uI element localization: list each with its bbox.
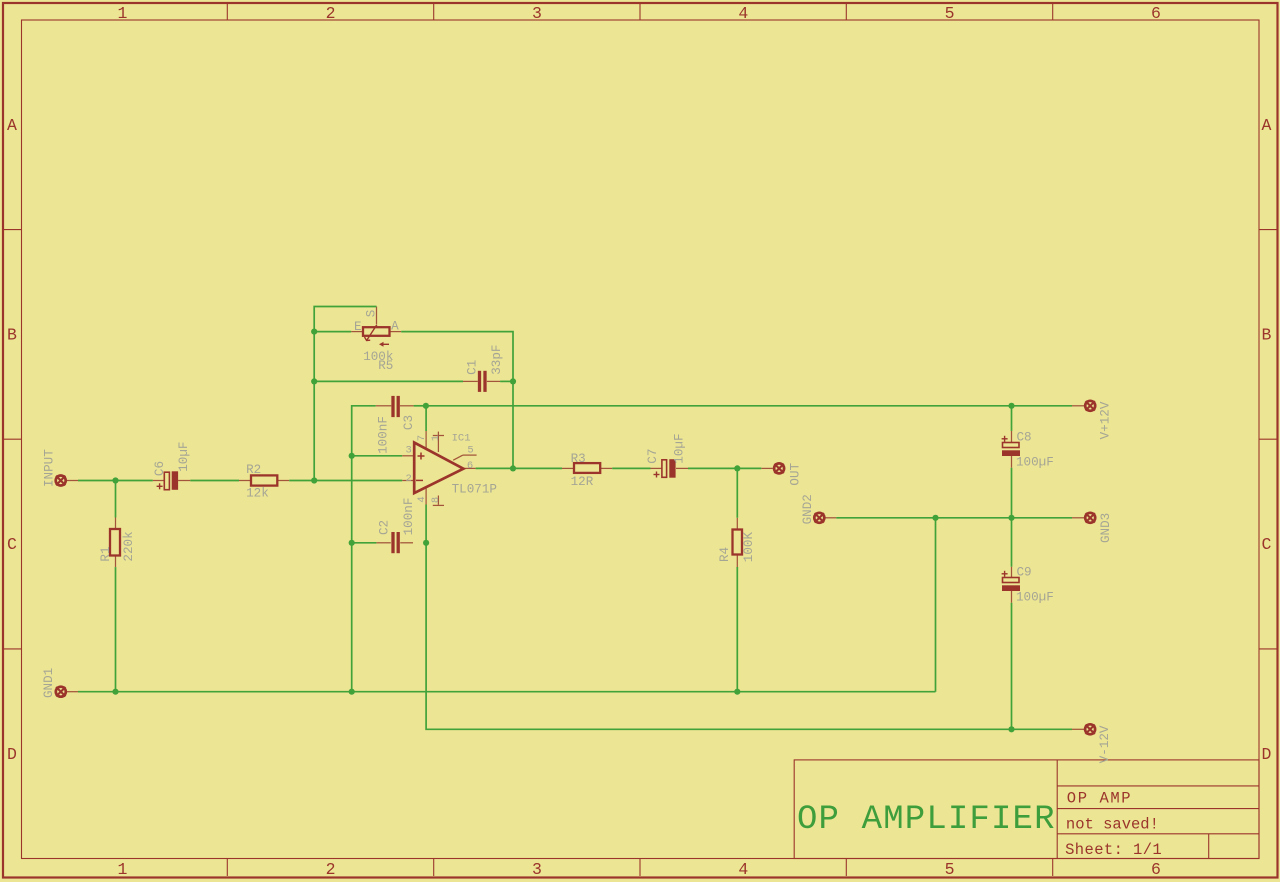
- node R4 bottom junction: [734, 689, 740, 695]
- column divider bottom 2|3: [433, 859, 435, 877]
- pin R2 left: [239, 480, 251, 482]
- node C2 left junction: [349, 540, 355, 546]
- connector GND1: [56, 687, 66, 697]
- svg-text:C7: C7: [646, 449, 660, 464]
- capacitor C6 polarized: [157, 471, 178, 490]
- capacitor C9 polarized: [1002, 571, 1020, 591]
- node V+ rail junction: [1008, 403, 1014, 409]
- pin R1 bottom: [115, 556, 117, 568]
- svg-text:C8: C8: [1017, 431, 1032, 445]
- row divider left C|D: [4, 648, 22, 650]
- node V- rail junction: [1008, 726, 1014, 732]
- svg-text:GND3: GND3: [1099, 513, 1113, 543]
- svg-text:6: 6: [1151, 860, 1161, 879]
- wire C8 bottom to GND row: [1011, 468, 1013, 518]
- svg-text:not saved!: not saved!: [1066, 816, 1159, 834]
- svg-text:D: D: [1262, 745, 1272, 764]
- svg-text:C1: C1: [466, 360, 480, 375]
- title block row line 1: [1057, 785, 1259, 787]
- wire R1 top: [115, 481, 117, 518]
- svg-text:TL071P: TL071P: [452, 482, 497, 496]
- svg-text:R3: R3: [571, 452, 586, 466]
- svg-text:C6: C6: [153, 461, 167, 476]
- svg-text:6: 6: [467, 460, 473, 472]
- pin IC1 1 bar: [433, 435, 444, 437]
- wire GND rail riser to GND2 row: [935, 518, 937, 692]
- svg-text:3: 3: [406, 445, 412, 457]
- svg-text:3: 3: [532, 860, 542, 879]
- node input R1 tap: [112, 477, 118, 483]
- pin C7 left: [651, 467, 662, 469]
- connector V-12V: [1085, 724, 1095, 734]
- potentiometer R5: [363, 325, 390, 347]
- svg-text:C2: C2: [378, 520, 392, 535]
- node R4 top junction: [734, 465, 740, 471]
- title block sheet cell divider: [1208, 834, 1210, 859]
- wire R4 top: [736, 468, 738, 517]
- wire C3 right to V+ junction: [414, 405, 426, 407]
- column divider bottom 1|2: [226, 859, 228, 877]
- column divider bottom 4|5: [845, 859, 847, 877]
- svg-text:V+12V: V+12V: [1099, 401, 1113, 439]
- wire R1 bottom to GND rail: [115, 567, 117, 692]
- svg-text:5: 5: [945, 4, 955, 23]
- title block outline: [794, 760, 1259, 859]
- svg-text:100µF: 100µF: [1016, 456, 1054, 470]
- svg-text:5: 5: [467, 445, 473, 457]
- pin C3 left: [376, 405, 392, 407]
- svg-text:33pF: 33pF: [490, 345, 504, 375]
- svg-text:4: 4: [738, 860, 748, 879]
- svg-text:A: A: [7, 116, 17, 135]
- node output junction: [510, 465, 516, 471]
- resistor R3: [574, 463, 600, 473]
- svg-text:6: 6: [1151, 4, 1161, 23]
- node R1 bottom junction: [112, 689, 118, 695]
- wire C6 to R2: [190, 480, 239, 482]
- wire C7 to OUT: [688, 467, 761, 469]
- wire C8 top link: [1011, 406, 1013, 431]
- pin IC1 4 V-: [425, 488, 427, 505]
- capacitor C1: [480, 371, 486, 392]
- svg-text:C3: C3: [402, 415, 416, 430]
- node C1 right junction: [510, 378, 516, 384]
- pin IC1 7 V+: [425, 431, 427, 449]
- svg-text:E: E: [354, 320, 362, 334]
- pin IC1 5 balance diagonal: [453, 455, 463, 460]
- svg-text:10µF: 10µF: [177, 442, 191, 472]
- resistor R1: [110, 529, 120, 556]
- pin IC1 6 output: [463, 467, 475, 469]
- svg-text:GND2: GND2: [801, 494, 815, 524]
- pin C7 right: [676, 467, 688, 469]
- svg-text:C: C: [1262, 535, 1272, 554]
- pin IC1 8 balance: [437, 496, 439, 505]
- svg-text:100µF: 100µF: [1016, 591, 1054, 605]
- svg-text:1: 1: [118, 860, 128, 879]
- pin V+12V connector stub: [1072, 405, 1084, 407]
- node GND2 row junction: [932, 515, 938, 521]
- wire output to R3: [476, 467, 562, 469]
- svg-text:OP AMP: OP AMP: [1067, 790, 1132, 808]
- svg-text:A: A: [391, 320, 399, 334]
- svg-text:B: B: [7, 326, 17, 345]
- pin IC1 5 balance horizontal: [463, 454, 477, 456]
- node V+ pin7 junction: [423, 403, 429, 409]
- svg-text:4: 4: [416, 496, 428, 502]
- node pot E junction: [311, 329, 317, 335]
- svg-text:100K: 100K: [742, 532, 756, 563]
- wire GND row to C9: [1011, 518, 1013, 567]
- wire R4 bottom to GND rail: [736, 567, 738, 692]
- wire V+ rail: [426, 405, 1072, 407]
- title block row line 3: [1057, 833, 1259, 835]
- wire C3 left down C2 left down GND: [352, 406, 376, 692]
- wire C2 right to V- rail: [426, 543, 1072, 730]
- svg-text:OP AMPLIFIER: OP AMPLIFIER: [797, 801, 1056, 839]
- resistor R4: [733, 530, 743, 555]
- pin C1 left: [463, 380, 478, 382]
- wire pot E to left vertical: [314, 331, 351, 333]
- pin IC1 2 inverting input: [402, 480, 414, 482]
- wire IC1 pin7: [425, 406, 427, 431]
- svg-text:4: 4: [738, 4, 748, 23]
- svg-text:1: 1: [118, 4, 128, 23]
- svg-text:INPUT: INPUT: [43, 449, 57, 487]
- pin R5 E: [351, 331, 363, 333]
- pin C6 right: [178, 480, 190, 482]
- connector INPUT: [56, 476, 66, 486]
- node pin3 junction: [349, 453, 355, 459]
- pin INPUT connector stub: [67, 480, 79, 482]
- svg-text:R1: R1: [99, 546, 113, 561]
- column divider top 3|4: [639, 4, 641, 20]
- node GND rail pin3 net junction: [349, 689, 355, 695]
- op-amp IC1 TL071P: [414, 443, 463, 494]
- column divider bottom 5|6: [1052, 859, 1054, 877]
- capacitor C2: [393, 532, 398, 553]
- svg-text:5: 5: [945, 860, 955, 879]
- pin R5 A: [390, 331, 402, 333]
- wire C2 left stub link: [352, 542, 377, 544]
- row divider left B|C: [4, 438, 22, 440]
- wire GND1 rail: [78, 691, 936, 693]
- capacitor C3: [393, 396, 398, 417]
- column divider top 1|2: [226, 4, 228, 20]
- pin C8 top: [1011, 431, 1013, 443]
- connector GND3: [1085, 513, 1095, 523]
- wire IC1 pin4 to C2: [425, 505, 427, 543]
- wire INPUT to C6: [78, 480, 153, 482]
- pin GND2 connector stub: [826, 517, 837, 519]
- connector V+12V: [1085, 401, 1095, 411]
- svg-text:100nF: 100nF: [376, 416, 390, 454]
- pin C6 left: [153, 480, 165, 482]
- svg-text:D: D: [7, 745, 17, 764]
- capacitor C8 polarized: [1002, 436, 1020, 456]
- svg-text:V-12V: V-12V: [1098, 725, 1112, 763]
- svg-text:Sheet: 1/1: Sheet: 1/1: [1065, 841, 1162, 859]
- pin IC1 3 non-inverting input: [402, 455, 414, 457]
- svg-text:3: 3: [532, 4, 542, 23]
- svg-text:8: 8: [430, 497, 442, 503]
- row divider left A|B: [4, 229, 22, 231]
- pin C9 top: [1011, 567, 1013, 578]
- pin R5 S wiper: [376, 307, 378, 325]
- svg-text:2: 2: [326, 860, 336, 879]
- wire IC1 pin3: [352, 455, 403, 457]
- svg-text:OUT: OUT: [789, 462, 803, 485]
- row divider right C|D: [1259, 648, 1277, 650]
- row divider right A|B: [1259, 229, 1277, 231]
- column divider top 5|6: [1052, 4, 1054, 20]
- pin C8 bottom: [1011, 456, 1013, 468]
- svg-text:B: B: [1262, 326, 1272, 345]
- wire R3 to C7: [612, 467, 650, 469]
- column divider top 2|3: [433, 4, 435, 20]
- wire pot A to right vertical: [401, 332, 513, 382]
- title block vertical divider: [1056, 760, 1058, 859]
- svg-text:R4: R4: [718, 547, 732, 562]
- pin C2 right: [400, 542, 413, 544]
- svg-text:IC1: IC1: [452, 432, 471, 444]
- pin R1 top: [115, 518, 117, 530]
- row divider right B|C: [1259, 438, 1277, 440]
- title block row line 2: [1057, 808, 1259, 810]
- svg-text:R2: R2: [246, 463, 261, 477]
- connector GND2: [814, 513, 824, 523]
- pin R3 left: [562, 467, 574, 469]
- wire C9 bottom to V- rail: [1011, 603, 1013, 730]
- svg-text:A: A: [1262, 116, 1272, 135]
- pin R4 top: [736, 518, 738, 530]
- wire R2 to IC1 pin2: [289, 480, 402, 482]
- svg-text:100nF: 100nF: [402, 498, 416, 536]
- node C2 right pin4 junction: [423, 540, 429, 546]
- pin OUT connector stub: [761, 467, 773, 469]
- wire C1 right: [500, 380, 513, 382]
- wire feedback left vertical: [314, 307, 376, 481]
- svg-text:220k: 220k: [122, 531, 136, 561]
- wire C1 left: [314, 380, 463, 382]
- svg-text:10µF: 10µF: [673, 433, 687, 463]
- svg-text:12k: 12k: [246, 487, 269, 501]
- pin V-12V connector stub: [1072, 728, 1084, 730]
- pin R4 bottom: [736, 555, 738, 568]
- svg-text:12R: 12R: [571, 475, 594, 489]
- svg-text:C: C: [7, 535, 17, 554]
- pin IC1 8 bar: [433, 504, 444, 506]
- pin C3 right: [400, 405, 414, 407]
- pin C9 bottom: [1011, 591, 1013, 603]
- svg-text:S: S: [364, 310, 378, 318]
- pin C1 right: [487, 380, 500, 382]
- node C8 C9 GND junction: [1008, 515, 1014, 521]
- node inverting input junction: [311, 477, 317, 483]
- svg-text:GND1: GND1: [42, 668, 56, 698]
- resistor R2: [251, 475, 277, 485]
- column divider bottom 3|4: [639, 859, 641, 877]
- column divider top 4|5: [845, 4, 847, 20]
- connector OUT: [774, 463, 784, 473]
- pin IC1 1 balance: [437, 432, 439, 452]
- svg-text:R5: R5: [378, 359, 393, 373]
- pin R3 right: [600, 467, 612, 469]
- wire right vertical to output row: [512, 381, 514, 468]
- svg-text:1: 1: [430, 435, 442, 441]
- svg-text:2: 2: [326, 4, 336, 23]
- node C1 left junction: [311, 378, 317, 384]
- svg-text:C9: C9: [1017, 566, 1032, 580]
- pin GND3 connector stub: [1072, 517, 1084, 519]
- pin R2 right: [277, 480, 289, 482]
- pin C2 left: [376, 542, 390, 544]
- svg-text:7: 7: [416, 435, 428, 441]
- wire GND2 to GND3: [836, 517, 1072, 519]
- capacitor C7 polarized: [654, 459, 676, 478]
- pin GND1 connector stub: [67, 691, 78, 693]
- svg-text:2: 2: [406, 473, 412, 485]
